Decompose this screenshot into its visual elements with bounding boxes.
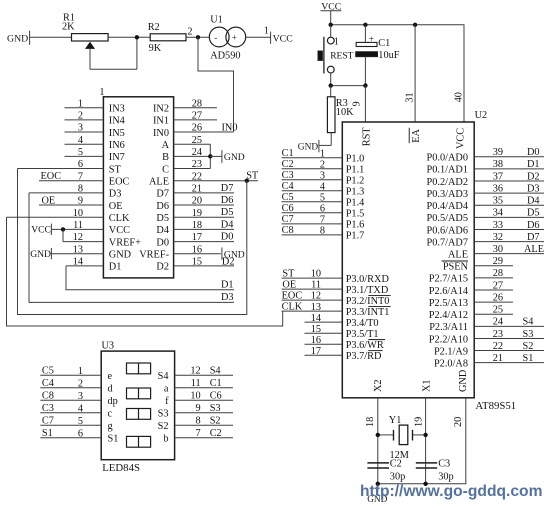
- pin number 18: [365, 417, 376, 427]
- svg-text:OE: OE: [42, 195, 56, 206]
- svg-text:IN6: IN6: [109, 140, 125, 151]
- svg-text:18: 18: [192, 220, 202, 231]
- svg-text:D1: D1: [527, 159, 540, 170]
- svg-text:20: 20: [453, 417, 464, 427]
- svg-text:d: d: [108, 384, 114, 395]
- U3 right net labels S4 C1 C6 S3 S2 C2: [210, 366, 222, 440]
- svg-text:EOC: EOC: [109, 177, 130, 188]
- svg-text:S1: S1: [523, 353, 534, 364]
- svg-text:C5: C5: [282, 192, 294, 203]
- svg-text:P2.6/A14: P2.6/A14: [429, 286, 468, 297]
- U2 left pin numbers 1-8: [320, 148, 325, 236]
- U2 right pin numbers 39-21: [493, 147, 503, 364]
- svg-text:16: 16: [192, 244, 202, 255]
- svg-text:IN2: IN2: [153, 104, 169, 115]
- svg-text:P3.2/INT0: P3.2/INT0: [346, 296, 390, 307]
- wire VCC rail to S1: [330, 25, 332, 38]
- svg-text:ALE: ALE: [448, 249, 468, 260]
- svg-text:P2.1/A9: P2.1/A9: [434, 346, 468, 357]
- U2 left pin stubs pins 10-17: [282, 278, 343, 355]
- svg-text:REST: REST: [330, 52, 353, 62]
- svg-text:ALE: ALE: [149, 177, 169, 188]
- svg-text:GND: GND: [109, 250, 132, 261]
- svg-text:4: 4: [320, 181, 325, 192]
- svg-text:P1.1: P1.1: [346, 165, 365, 176]
- svg-text:7: 7: [78, 171, 83, 182]
- GND terminal below R3: [298, 140, 331, 152]
- GND terminal at ADC pin 16 (VREF-): [222, 248, 245, 261]
- wire D1 net from ADC pin 14: [66, 266, 234, 290]
- svg-text:P0.2/AD2: P0.2/AD2: [427, 177, 468, 188]
- svg-text:P3.3/INT1: P3.3/INT1: [346, 307, 390, 318]
- svg-text:26: 26: [493, 292, 503, 303]
- svg-text:4: 4: [78, 135, 83, 146]
- svg-text:EOC: EOC: [282, 291, 303, 302]
- svg-text:19: 19: [414, 417, 425, 427]
- temperature sensor U1 AD590: [209, 14, 245, 61]
- svg-text:27: 27: [493, 280, 503, 291]
- svg-text:12: 12: [190, 366, 200, 377]
- svg-text:D3: D3: [221, 292, 234, 303]
- svg-text:P2.7/A15: P2.7/A15: [429, 274, 468, 285]
- svg-text:9: 9: [196, 403, 201, 414]
- svg-text:P1.2: P1.2: [346, 176, 365, 187]
- U3 left net labels C5 C4 C8 C3 C7 S1: [42, 366, 54, 440]
- svg-text:6: 6: [78, 428, 83, 439]
- svg-text:11: 11: [311, 280, 321, 291]
- svg-text:OE: OE: [282, 280, 296, 291]
- svg-text:VCC: VCC: [31, 224, 51, 235]
- svg-text:S3: S3: [523, 329, 534, 340]
- svg-text:24: 24: [493, 317, 503, 328]
- svg-text:10uF: 10uF: [378, 50, 399, 61]
- VCC terminal (right of U1): [271, 32, 293, 45]
- svg-text:15: 15: [192, 257, 202, 268]
- svg-text:C1: C1: [378, 38, 390, 49]
- svg-text:P0.5/AD5: P0.5/AD5: [427, 213, 468, 224]
- svg-text:6: 6: [78, 159, 83, 170]
- svg-text:U3: U3: [102, 340, 115, 351]
- svg-text:dp: dp: [108, 396, 118, 407]
- svg-text:S2: S2: [158, 421, 169, 432]
- label D2 at ADC pin 15: [222, 256, 235, 267]
- svg-text:23: 23: [493, 329, 503, 340]
- label OE at ADC pin 9: [42, 195, 56, 206]
- wire EA to U2 pin 31: [414, 25, 416, 122]
- svg-text:9: 9: [78, 196, 83, 207]
- svg-text:a: a: [164, 384, 169, 395]
- U2 left pin numbers 10-17: [311, 269, 321, 357]
- svg-text:C6: C6: [282, 203, 294, 214]
- svg-text:12: 12: [311, 291, 321, 302]
- U2 right pin stubs pins 39-21: [474, 157, 544, 363]
- VCC terminal at ADC pin 11: [31, 224, 51, 236]
- VCC terminal (top rail): [320, 1, 341, 25]
- svg-text:-: -: [214, 32, 217, 42]
- svg-text:C6: C6: [210, 391, 222, 402]
- svg-text:C5: C5: [42, 366, 54, 377]
- svg-text:GND: GND: [7, 33, 28, 44]
- node S1-R3 junction: [329, 83, 333, 87]
- svg-text:P3.7/RD: P3.7/RD: [346, 351, 382, 362]
- svg-text:23: 23: [192, 159, 202, 170]
- svg-text:C3: C3: [438, 459, 450, 470]
- U3 left pin numbers 1-6: [78, 366, 83, 440]
- ground symbol bottom (GND): [367, 484, 387, 505]
- ADC internal pin name labels: [109, 104, 170, 273]
- svg-text:P2.3/A11: P2.3/A11: [429, 322, 468, 333]
- svg-text:D4: D4: [221, 219, 234, 230]
- label EOC at ADC pin 7: [41, 171, 62, 182]
- ADC left pin stubs (pins 1-14): [7, 108, 104, 266]
- svg-text:D1: D1: [221, 279, 234, 290]
- svg-text:D7: D7: [156, 189, 169, 200]
- svg-text:IN5: IN5: [109, 128, 125, 139]
- svg-text:3: 3: [78, 391, 83, 402]
- U3 internal right labels S4 a f S3 S2 b: [158, 371, 169, 445]
- svg-text:P3.1/TXD: P3.1/TXD: [346, 285, 389, 296]
- svg-text:1: 1: [264, 25, 269, 36]
- svg-text:C1: C1: [282, 148, 294, 159]
- svg-text:RST: RST: [361, 127, 372, 147]
- node C2-ground rail junction: [376, 482, 380, 486]
- svg-text:X2: X2: [373, 379, 384, 392]
- svg-text:S3: S3: [158, 409, 169, 420]
- potentiometer R1 wiper arrow and wire: [85, 37, 137, 69]
- svg-text:13: 13: [311, 302, 321, 313]
- svg-text:3: 3: [320, 170, 325, 181]
- svg-text:33: 33: [493, 220, 503, 231]
- svg-text:5: 5: [78, 416, 83, 427]
- svg-text:IN4: IN4: [109, 116, 125, 127]
- svg-text:25: 25: [192, 135, 202, 146]
- U3 left pin stubs 1-6: [40, 375, 101, 438]
- svg-text:5: 5: [78, 147, 83, 158]
- svg-text:14: 14: [73, 257, 83, 268]
- svg-text:22: 22: [192, 171, 202, 182]
- svg-text:P0.1/AD1: P0.1/AD1: [427, 165, 468, 176]
- wire RST node to U2 pin 9: [364, 86, 366, 122]
- svg-text:C2: C2: [390, 459, 402, 470]
- node VCC rail / EA pin 31: [413, 23, 417, 27]
- svg-text:C7: C7: [282, 214, 294, 225]
- ADC chip body (designator 1): [99, 87, 173, 278]
- svg-text:D5: D5: [221, 207, 234, 218]
- svg-text:D1: D1: [109, 262, 122, 273]
- svg-text:b: b: [163, 434, 168, 445]
- svg-text:C8: C8: [42, 391, 54, 402]
- wire ST net (ADC ST pin 6 to ALE junction): [18, 169, 247, 315]
- svg-text:18: 18: [365, 417, 376, 427]
- svg-text:IN3: IN3: [109, 104, 125, 115]
- svg-text:S2: S2: [210, 416, 221, 427]
- svg-text:D0: D0: [156, 237, 169, 248]
- resistor R3 10K: [327, 86, 354, 146]
- U3 internal left labels e d dp c g S1: [108, 371, 119, 445]
- pin number 9 (U2 RST): [352, 101, 363, 106]
- pin number 40 (U2 VCC): [454, 92, 465, 102]
- svg-text:2K: 2K: [62, 22, 75, 33]
- svg-text:S4: S4: [523, 317, 534, 328]
- svg-text:B: B: [162, 152, 169, 163]
- U2 left pin stubs pins 1-8: [282, 158, 343, 235]
- node C1-RST junction: [363, 83, 367, 87]
- svg-text:ST: ST: [282, 269, 295, 280]
- svg-text:OE: OE: [109, 201, 123, 212]
- display U3 LED84S body: [101, 340, 174, 474]
- svg-text:28: 28: [192, 98, 202, 109]
- svg-text:9: 9: [352, 101, 363, 106]
- crystal Y1 12M: [378, 415, 426, 461]
- svg-text:D2: D2: [222, 256, 235, 267]
- svg-text:GND: GND: [30, 249, 51, 260]
- wire R2 to U1 pin 2: [186, 27, 209, 38]
- svg-text:P3.0/RXD: P3.0/RXD: [346, 274, 390, 285]
- svg-text:P3.4/T0: P3.4/T0: [346, 318, 379, 329]
- svg-text:30p: 30p: [390, 471, 405, 482]
- svg-text:39: 39: [493, 147, 503, 158]
- GND terminal at ADC pins 25-24-23: [222, 150, 245, 163]
- pin number 19: [414, 417, 425, 427]
- svg-text:CLK: CLK: [109, 213, 130, 224]
- svg-text:10: 10: [73, 208, 83, 219]
- wire CLK net (ADC CLK pin 10 to U2 pin 13): [7, 217, 283, 326]
- svg-text:10: 10: [311, 269, 321, 280]
- ADC right pin stubs (pins 28-15): [174, 108, 258, 266]
- bracket wire ADC pins 25-24-23 (A,B,C) to GND: [208, 144, 222, 168]
- svg-text:15: 15: [311, 324, 321, 335]
- svg-text:IN0: IN0: [153, 128, 169, 139]
- resistor R1 2K (potentiometer body): [62, 13, 108, 42]
- svg-text:10: 10: [190, 391, 200, 402]
- svg-text:PSEN: PSEN: [443, 262, 469, 273]
- svg-text:R2: R2: [148, 22, 160, 33]
- svg-text:C3: C3: [282, 170, 294, 181]
- svg-text:P0.0/AD0: P0.0/AD0: [427, 153, 468, 164]
- svg-text:P2.5/A13: P2.5/A13: [429, 298, 468, 309]
- svg-text:21: 21: [192, 183, 202, 194]
- svg-text:C3: C3: [42, 403, 54, 414]
- svg-text:P0.3/AD3: P0.3/AD3: [427, 189, 468, 200]
- svg-text:2: 2: [78, 110, 83, 121]
- svg-text:g: g: [108, 421, 113, 432]
- svg-text:D4: D4: [527, 196, 540, 207]
- U2 right internal labels P0.x ALE PSEN P2.x: [427, 153, 469, 370]
- svg-text:19: 19: [192, 208, 202, 219]
- svg-text:EOC: EOC: [41, 171, 62, 182]
- node junction R1 wiper / R2: [135, 35, 139, 39]
- svg-text:P1.5: P1.5: [346, 209, 365, 220]
- svg-text:S3: S3: [210, 403, 221, 414]
- svg-text:D6: D6: [156, 201, 169, 212]
- svg-text:38: 38: [493, 159, 503, 170]
- svg-text:10K: 10K: [336, 107, 354, 118]
- svg-text:1: 1: [78, 98, 83, 109]
- svg-text:31: 31: [404, 92, 415, 102]
- node X2-crystal junction: [376, 433, 380, 437]
- svg-text:P1.4: P1.4: [346, 198, 365, 209]
- ADC left pin numbers: [73, 98, 83, 267]
- wire S1 to bottom node: [330, 73, 332, 86]
- svg-text:2: 2: [187, 27, 192, 38]
- svg-text:2: 2: [78, 378, 83, 389]
- svg-text:Y1: Y1: [389, 415, 402, 426]
- microcontroller U2 AT89S51 body: [342, 110, 516, 412]
- svg-text:VREF-: VREF-: [139, 250, 169, 261]
- capacitor C3 30p: [416, 459, 454, 483]
- svg-text:29: 29: [493, 256, 503, 267]
- svg-text:P0.7/AD7: P0.7/AD7: [427, 237, 468, 248]
- svg-text:C8: C8: [282, 225, 294, 236]
- node junction ADC pins 11-12 (VCC to VREF+): [61, 227, 65, 241]
- svg-text:IN0: IN0: [222, 123, 238, 134]
- svg-text:AD590: AD590: [210, 51, 240, 62]
- svg-text:30: 30: [493, 244, 503, 255]
- svg-text:P1.3: P1.3: [346, 187, 365, 198]
- svg-text:7: 7: [196, 428, 201, 439]
- svg-text:8: 8: [320, 225, 325, 236]
- svg-text:IN7: IN7: [109, 152, 125, 163]
- svg-text:C2: C2: [282, 159, 294, 170]
- svg-text:24: 24: [192, 147, 202, 158]
- U2 right net labels D0-D7 ALE: [524, 147, 544, 255]
- svg-text:S4: S4: [210, 366, 221, 377]
- svg-text:35: 35: [493, 196, 503, 207]
- svg-text:D7: D7: [527, 232, 540, 243]
- label D1 net: [221, 279, 234, 290]
- svg-text:16: 16: [311, 335, 321, 346]
- svg-text:13: 13: [73, 244, 83, 255]
- wire S1/C1/R3 node (RST net): [331, 85, 366, 87]
- svg-text:P0.4/AD4: P0.4/AD4: [427, 201, 468, 212]
- pin number 31 (U2 EA): [404, 92, 415, 102]
- wire U2 GND pin 20 to ground rail: [378, 398, 466, 484]
- svg-text:c: c: [108, 409, 113, 420]
- node VCC rail / S1: [329, 23, 333, 27]
- U2 rotated bottom labels X2 X1 GND: [373, 369, 469, 392]
- svg-text:D6: D6: [527, 220, 540, 231]
- svg-text:LED84S: LED84S: [102, 462, 140, 474]
- node C3-ground rail junction: [423, 482, 427, 486]
- svg-text:1: 1: [99, 87, 104, 98]
- svg-text:D6: D6: [221, 195, 234, 206]
- resistor R2 9K: [148, 22, 186, 54]
- svg-text:D0: D0: [221, 232, 234, 243]
- svg-text:2: 2: [320, 159, 325, 170]
- svg-text:9K: 9K: [149, 43, 162, 54]
- svg-text:CLK: CLK: [282, 302, 303, 313]
- label IN0 at ADC pin 26: [222, 123, 238, 134]
- wire U1 pin 1 to VCC: [246, 25, 271, 37]
- node X1-crystal junction: [423, 433, 427, 437]
- svg-text:C4: C4: [42, 378, 54, 389]
- svg-text:D4: D4: [156, 225, 169, 236]
- capacitor C2 30p: [367, 459, 405, 483]
- svg-text:S2: S2: [523, 341, 534, 352]
- svg-text:D5: D5: [156, 213, 169, 224]
- svg-text:12: 12: [73, 232, 83, 243]
- pushbutton S1 REST: [318, 36, 354, 73]
- svg-text:7: 7: [320, 214, 325, 225]
- svg-text:5: 5: [320, 192, 325, 203]
- node ST at ADC ALE pin 22: [245, 170, 259, 183]
- svg-text:30p: 30p: [438, 471, 453, 482]
- svg-text:D5: D5: [527, 208, 540, 219]
- svg-text:D3: D3: [527, 183, 540, 194]
- GND terminal at ADC pin 13: [30, 248, 51, 260]
- wire U1 output node to ADC IN0 pin 26: [198, 37, 234, 132]
- svg-text:U1: U1: [210, 14, 223, 25]
- svg-text:S4: S4: [158, 371, 169, 382]
- U2 left internal labels P1.x P3.x: [346, 154, 391, 363]
- svg-text:D2: D2: [156, 262, 169, 273]
- svg-text:P1.7: P1.7: [346, 231, 365, 242]
- svg-text:1: 1: [334, 36, 339, 47]
- svg-text:P2.2/A10: P2.2/A10: [429, 334, 468, 345]
- labels D7-D4 D0 at ADC pins 21-17: [221, 183, 234, 243]
- svg-text:8: 8: [78, 183, 83, 194]
- svg-text:X1: X1: [422, 379, 433, 392]
- svg-text:A: A: [162, 140, 170, 151]
- svg-text:1: 1: [320, 148, 325, 159]
- wire U2 X1 pin 19: [425, 398, 427, 484]
- svg-text:C2: C2: [210, 428, 222, 439]
- wire R1 to R2: [108, 36, 150, 38]
- svg-text:17: 17: [192, 232, 202, 243]
- svg-text:P1.0: P1.0: [346, 154, 365, 165]
- wire GND to R1: [30, 36, 72, 38]
- svg-text:P2.4/A12: P2.4/A12: [429, 310, 468, 321]
- svg-text:VREF+: VREF+: [109, 237, 141, 248]
- svg-text:26: 26: [192, 123, 202, 134]
- ADC right pin numbers: [192, 98, 202, 267]
- watermark www.go-gddq.com: [360, 483, 543, 500]
- svg-text:3: 3: [78, 123, 83, 134]
- svg-text:P0.6/AD6: P0.6/AD6: [427, 225, 468, 236]
- svg-text:U2: U2: [475, 110, 488, 121]
- svg-text:ST: ST: [246, 170, 259, 181]
- svg-text:36: 36: [493, 183, 503, 194]
- wire U2 X2 pin 18: [377, 398, 379, 484]
- svg-text:D7: D7: [221, 183, 234, 194]
- svg-text:P1.6: P1.6: [346, 220, 365, 231]
- svg-text:11: 11: [73, 220, 83, 231]
- svg-text:AT89S51: AT89S51: [475, 400, 516, 412]
- svg-text:+: +: [369, 35, 374, 45]
- svg-text:27: 27: [192, 110, 202, 121]
- svg-text:C4: C4: [282, 181, 294, 192]
- svg-text:37: 37: [493, 171, 503, 182]
- svg-text:C: C: [162, 164, 169, 175]
- svg-text:22: 22: [493, 341, 503, 352]
- pin number 20: [453, 417, 464, 427]
- svg-text:ALE: ALE: [524, 244, 544, 255]
- U2 rotated top labels RST EA VCC: [361, 127, 466, 149]
- node VCC rail / C1: [363, 23, 367, 27]
- U2 labels C1-C8 at pins 1-8: [282, 148, 294, 236]
- svg-text:S1: S1: [42, 428, 53, 439]
- U3 right pin stubs 12-7: [175, 375, 233, 438]
- svg-text:4: 4: [78, 403, 83, 414]
- svg-text:f: f: [165, 396, 169, 407]
- svg-text:P3.6/WR: P3.6/WR: [346, 340, 384, 351]
- svg-text:28: 28: [493, 268, 503, 279]
- svg-text:VCC: VCC: [456, 128, 467, 149]
- svg-text:http://www.go-gddq.com: http://www.go-gddq.com: [360, 483, 543, 500]
- label D3 net: [221, 292, 234, 303]
- svg-text:21: 21: [493, 353, 503, 364]
- svg-text:20: 20: [192, 196, 202, 207]
